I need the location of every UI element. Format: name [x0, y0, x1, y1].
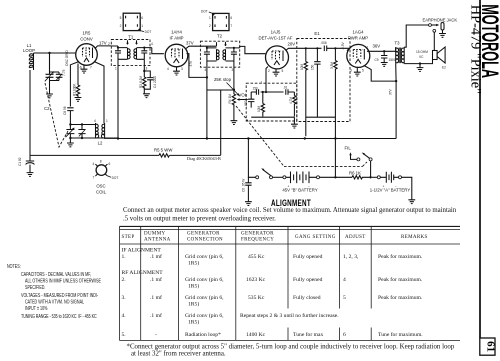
capacitor C9 1500 [375, 51, 396, 62]
svg-text:17V: 17V [99, 41, 107, 46]
svg-text:STEP: STEP [122, 235, 135, 240]
svg-text:OSC: OSC [96, 184, 105, 189]
svg-text:VC: VC [419, 55, 424, 59]
svg-text:Diag 40CK65043-B: Diag 40CK65043-B [187, 156, 221, 161]
svg-text:1, 2, 3,: 1, 2, 3, [343, 254, 359, 260]
svg-text:4: 4 [167, 67, 169, 71]
wire T3 secondary to earphone jack [404, 25, 429, 47]
svg-text:R4 1M: R4 1M [228, 94, 232, 104]
svg-text:6: 6 [343, 332, 346, 338]
svg-text:*Connect generator output acro: *Connect generator output across 5" diam… [127, 344, 455, 351]
battery return bus wire [30, 154, 221, 156]
pot wiper arrow [238, 99, 248, 101]
svg-text:61: 61 [484, 341, 496, 352]
svg-text:.1 mf: .1 mf [150, 294, 162, 301]
tube V4 1AG4 [347, 44, 370, 67]
svg-text:.006: .006 [321, 41, 327, 45]
main B- bus wire [70, 137, 396, 140]
svg-text:1R5): 1R5) [188, 260, 199, 267]
svg-text:Connect an output meter across: Connect an output meter across speaker v… [123, 207, 457, 214]
transformer T3 [396, 47, 405, 63]
svg-text:6: 6 [109, 162, 111, 166]
bus junction dots [247, 137, 249, 139]
volume control R4 1M pot [228, 90, 248, 106]
svg-text:.5 volts on output meter to pr: .5 volts on output meter to prevent over… [123, 216, 276, 223]
svg-text:GENERATOR: GENERATOR [187, 232, 220, 237]
ground below earphone jack [439, 34, 446, 38]
plate wire 1R5 to T1 with 17V [95, 46, 111, 49]
svg-text:1: 1 [106, 119, 108, 123]
svg-text:150: 150 [253, 87, 259, 91]
svg-text:Radiation loop*: Radiation loop* [185, 332, 221, 338]
svg-text:R1 100K: R1 100K [73, 83, 77, 96]
ground below C6 [245, 202, 252, 206]
wire junction down to bus [395, 81, 397, 138]
table footnote [127, 344, 455, 358]
svg-text:455 Kc: 455 Kc [248, 254, 265, 260]
capacitor C6 .05 [241, 177, 251, 201]
svg-text:E2: E2 [442, 66, 446, 70]
svg-text:1AJ5: 1AJ5 [271, 30, 281, 35]
table header text [122, 232, 428, 243]
svg-text:ADJUST: ADJUST [345, 235, 366, 240]
svg-text:5: 5 [120, 16, 122, 20]
wire T2 pin3 down to volume [233, 61, 235, 90]
on-off switch SW1 [256, 168, 273, 179]
svg-text:CONNECTION: CONNECTION [187, 238, 223, 243]
svg-text:4.7M: 4.7M [289, 97, 293, 104]
wire battery B to junction [320, 176, 353, 178]
wire T1 pin3 down to R2 C4 [143, 59, 145, 77]
wire battery A to ground [402, 177, 412, 200]
detector network dashed box [246, 83, 297, 121]
svg-text:37V: 37V [389, 88, 393, 95]
svg-text:C8 56: C8 56 [63, 106, 67, 115]
oscillator coil socket view [93, 160, 119, 195]
wire T1 pin1 down to bus [117, 59, 119, 138]
E1 bottom rail [306, 116, 336, 118]
coupling unit E1 dashed box [297, 39, 350, 122]
screen wire 1AH4 down [187, 54, 208, 78]
T2 secondary tuned circuit [223, 42, 266, 61]
svg-text:4: 4 [151, 42, 153, 46]
svg-text:Peak for maximum.: Peak for maximum. [378, 294, 423, 301]
svg-text:INPUT ± 10%: INPUT ± 10% [25, 305, 47, 311]
wire T2 pin4 down to bus [206, 61, 208, 139]
svg-text:1-1/2V "A" BATTERY: 1-1/2V "A" BATTERY [370, 188, 411, 193]
tuning gang section C2b osc [66, 125, 75, 139]
svg-text:CAPACITORS - DECIMAL VALUES IN: CAPACITORS - DECIMAL VALUES IN MF, [21, 271, 91, 277]
svg-text:10M: 10M [257, 105, 261, 112]
svg-text:Fully closed: Fully closed [293, 295, 321, 301]
svg-text:-: - [155, 332, 157, 338]
svg-text:-3.5V: -3.5V [341, 42, 345, 50]
svg-text:535 Kc: 535 Kc [248, 295, 265, 301]
svg-text:37V: 37V [189, 60, 193, 67]
svg-text:36V: 36V [373, 43, 381, 48]
resistor 3.3M in E1 [330, 47, 337, 176]
svg-text:8: 8 [100, 160, 102, 164]
ground below 1AG4 [356, 67, 358, 72]
resistor R1 100K [76, 85, 79, 97]
grid wire E1 to 1AG4 [347, 48, 350, 50]
svg-text:TUNING RANGE - 535 to 1620 KC: TUNING RANGE - 535 to 1620 KC IF - 455 K… [21, 313, 97, 319]
T2 primary tuned circuit [200, 42, 219, 61]
svg-text:FREQUENCY: FREQUENCY [241, 238, 274, 243]
socket diagram box T2 [201, 9, 232, 30]
svg-text:1: 1 [209, 16, 211, 20]
battery B1 45V [273, 172, 320, 193]
svg-text:1R5): 1R5) [188, 319, 199, 326]
svg-text:1: 1 [367, 46, 369, 50]
capacitor C4 2200 [144, 71, 153, 94]
svg-text:5.: 5. [122, 332, 127, 338]
svg-text:3: 3 [350, 69, 352, 73]
detector coupling cap 150 [251, 87, 266, 95]
speaker E2 [433, 47, 447, 70]
battery A 1.5V [370, 172, 411, 193]
capacitor C8 56 [63, 106, 73, 124]
plate wire 1AH4 to T2 with 37V [186, 46, 200, 48]
svg-text:5: 5 [343, 295, 346, 301]
ground on voice coil [419, 64, 421, 68]
svg-text:Grid conv (pin 6,: Grid conv (pin 6, [185, 253, 224, 260]
svg-text:7: 7 [93, 176, 95, 180]
wire C6 branch [248, 139, 255, 178]
capacitor .01 [265, 86, 295, 95]
svg-text:OSC GRID: OSC GRID [65, 50, 69, 66]
wire loop to converter grid [34, 52, 77, 54]
cathode wire down to L2 [94, 62, 104, 124]
svg-text:.1 mf: .1 mf [150, 253, 162, 260]
osc grid wire down to C8 [70, 62, 79, 107]
svg-text:Grid conv (pin 6,: Grid conv (pin 6, [185, 294, 224, 301]
svg-text:1: 1 [261, 81, 263, 85]
svg-text:Tune for max: Tune for max [293, 331, 323, 338]
wire T3 primary bottom to junction [395, 64, 397, 82]
svg-text:4.: 4. [122, 313, 127, 319]
antenna coil L1 [30, 53, 34, 155]
svg-text:4: 4 [205, 68, 207, 72]
transformer T2 dashed box [200, 41, 239, 67]
ground stub at osc cap [67, 143, 74, 147]
ground below tuning cap [49, 81, 51, 95]
svg-text:NOTES:: NOTES: [7, 263, 21, 269]
svg-text:15 OHM: 15 OHM [416, 50, 428, 54]
svg-text:6: 6 [141, 16, 143, 20]
svg-text:5: 5 [362, 69, 364, 73]
svg-text:6: 6 [230, 16, 232, 20]
svg-text:GANG SETTING: GANG SETTING [295, 235, 336, 240]
detector box bottom rail [251, 116, 294, 118]
ground below 1R5 [83, 65, 85, 69]
svg-text:4: 4 [93, 162, 95, 166]
svg-text:COIL: COIL [96, 190, 107, 195]
svg-text:REMARKS: REMARKS [401, 235, 428, 240]
grid return wire 1AJ5 to detector box [266, 67, 268, 93]
ground below 1AJ5 [275, 69, 277, 72]
screen wire down R1 [77, 64, 79, 86]
svg-text:GENERATOR: GENERATOR [241, 232, 274, 237]
svg-text:1.: 1. [122, 254, 127, 260]
ground below C9 [381, 63, 388, 67]
svg-text:4: 4 [94, 119, 96, 123]
svg-text:IF ALIGNMENT: IF ALIGNMENT [122, 247, 162, 253]
svg-text:2: 2 [108, 42, 110, 46]
tuning gang section C2a [45, 53, 59, 81]
node bottom rail to bus [70, 137, 95, 139]
svg-text:Fully opened: Fully opened [293, 254, 323, 260]
table body text [122, 247, 424, 338]
svg-text:HP-479 "Pixie": HP-479 "Pixie" [468, 5, 484, 94]
resistor R6 1K [352, 176, 370, 179]
svg-text:DOT: DOT [145, 30, 152, 34]
table top double rule [119, 225, 460, 227]
transformer T1 dashed box [111, 40, 150, 66]
svg-text:at least 32" from receiver ant: at least 32" from receiver antenna. [131, 351, 226, 358]
svg-text:1623 Kc: 1623 Kc [246, 277, 266, 283]
ground below detector box [293, 117, 295, 124]
alignment intro paragraph [123, 207, 457, 223]
ground below C1 [27, 173, 34, 177]
svg-text:LOOP: LOOP [23, 48, 35, 53]
wire L2 bottoms to bus [96, 137, 120, 140]
svg-text:R6 1K: R6 1K [349, 170, 361, 175]
ground below R2 C4 [143, 94, 150, 98]
svg-text:R5 5 WW: R5 5 WW [154, 148, 173, 153]
osc trimmer cap [78, 125, 85, 139]
T1 primary tuned circuit [111, 40, 130, 59]
svg-text:4: 4 [343, 277, 346, 283]
svg-text:1R5): 1R5) [188, 283, 199, 290]
antenna trimmer cap [56, 69, 66, 80]
svg-text:RF ALIGNMENT: RF ALIGNMENT [122, 270, 164, 276]
svg-text:1: 1 [141, 24, 143, 28]
svg-text:C9: C9 [375, 58, 379, 62]
svg-text:R2 8.2M: R2 8.2M [139, 76, 143, 88]
svg-text:5: 5 [282, 69, 284, 73]
svg-text:DOT: DOT [112, 176, 119, 180]
page number box [480, 338, 495, 355]
ground below volume pot [233, 105, 235, 121]
svg-text:DET-AVC-1ST AF: DET-AVC-1ST AF [259, 36, 293, 41]
tube V3 1AJ5 [266, 46, 289, 69]
resistor 10M [257, 91, 264, 117]
svg-text:DOT: DOT [201, 9, 208, 13]
svg-text:2: 2 [268, 69, 270, 73]
capacitor .006 [321, 41, 350, 51]
svg-text:C6 .05 W: C6 .05 W [241, 179, 245, 192]
svg-text:1AH4: 1AH4 [171, 30, 182, 35]
alignment heading [271, 198, 311, 209]
svg-text:PWR AMP: PWR AMP [348, 36, 368, 41]
capacitor .002 [244, 92, 255, 108]
svg-text:37V: 37V [186, 41, 194, 46]
ground below R1 [75, 98, 82, 102]
earphone jack [429, 23, 444, 34]
filament switch SW2 [345, 146, 373, 178]
svg-text:CATED WITH A VTVM. NO SIGNAL: CATED WITH A VTVM. NO SIGNAL [25, 299, 84, 305]
svg-text:3: 3 [181, 67, 183, 71]
model label HP-479 Pixie [468, 5, 484, 94]
svg-text:3.: 3. [122, 295, 127, 301]
svg-text:SPECIFIED.: SPECIFIED. [25, 284, 45, 290]
svg-text:.002: .002 [244, 100, 248, 106]
svg-text:1R5: 1R5 [83, 31, 91, 36]
svg-text:3.3M: 3.3M [330, 62, 334, 69]
svg-text:25K stop: 25K stop [214, 77, 232, 82]
svg-text:2: 2 [120, 24, 122, 28]
svg-text:T3: T3 [394, 41, 400, 46]
svg-text:1400 Kc: 1400 Kc [246, 332, 266, 338]
svg-text:ANTENNA: ANTENNA [144, 238, 171, 243]
svg-text:L2: L2 [98, 141, 103, 146]
svg-text:20V: 20V [288, 42, 296, 47]
svg-text:3: 3 [232, 68, 234, 72]
svg-text:C4 2200: C4 2200 [153, 76, 157, 88]
svg-text:ALL OTHERS IN MMF UNLESS OTHER: ALL OTHERS IN MMF UNLESS OTHERWISE [25, 278, 101, 284]
svg-text:C1 82: C1 82 [18, 157, 22, 166]
svg-text:1500: 1500 [389, 58, 396, 62]
filament wire 1AG4 pin5 [364, 66, 396, 82]
node junction at tuning cap [48, 52, 50, 54]
plate wire 1AG4 to T3 with 36V [367, 50, 393, 52]
svg-text:Repeat steps 2 & 3 until no fu: Repeat steps 2 & 3 until no further incr… [240, 312, 339, 319]
mechanical linkage dashed to switches [236, 106, 367, 166]
mechanical gang dashed linkage C2 [45, 83, 68, 147]
resistor 10M in E1 [300, 47, 307, 136]
svg-text:E1: E1 [314, 31, 320, 36]
svg-text:DUMMY: DUMMY [144, 232, 166, 237]
wire jack to voice coil [433, 32, 435, 50]
node osc rail [69, 123, 71, 125]
resistor R5 5 WW [159, 154, 169, 157]
wire down to tuning gang C2a [49, 53, 51, 72]
svg-text:T1: T1 [128, 34, 134, 39]
wire T3 primary top [393, 47, 395, 51]
T1 secondary tuned circuit [134, 40, 164, 59]
tube V1 1R5 [76, 44, 98, 66]
svg-text:7-75: 7-75 [62, 69, 66, 76]
title block divider line [479, 0, 481, 338]
svg-text:T2: T2 [217, 34, 223, 39]
table bottom rule [119, 339, 460, 341]
svg-text:7: 7 [230, 24, 232, 28]
tube V2 1AH4 [165, 44, 188, 67]
svg-text:Peak for maximum.: Peak for maximum. [378, 276, 423, 283]
svg-text:7: 7 [90, 66, 92, 70]
svg-text:.1 mf: .1 mf [150, 276, 162, 283]
svg-text:3: 3 [146, 67, 148, 71]
svg-text:VOLTAGES - MEASURED FROM POINT: VOLTAGES - MEASURED FROM POINT INDI- [21, 292, 99, 298]
ground below 1AH4 [176, 67, 178, 71]
svg-text:CONV: CONV [80, 37, 93, 42]
svg-text:2: 2 [209, 24, 211, 28]
svg-text:1: 1 [115, 67, 117, 71]
svg-text:IF AMP: IF AMP [169, 36, 183, 41]
table header underline [119, 243, 460, 245]
socket diagram box T1 [120, 13, 152, 34]
svg-text:.1 mf: .1 mf [150, 312, 162, 319]
table column rules [119, 226, 121, 340]
svg-text:2.: 2. [122, 277, 127, 283]
resistor R2 8.2M [143, 77, 146, 89]
wire T3 secondary bottom [404, 60, 432, 64]
svg-text:Grid conv (pin 6,: Grid conv (pin 6, [185, 312, 224, 319]
svg-text:45V "B" BATTERY: 45V "B" BATTERY [282, 188, 318, 193]
MOTOROLA logo text [476, 4, 500, 78]
svg-text:.01: .01 [283, 86, 288, 90]
capacitor C1 [18, 155, 34, 172]
svg-text:1AG4: 1AG4 [353, 30, 365, 35]
svg-text:EARPHONE JACK: EARPHONE JACK [423, 18, 458, 23]
oscillator coil L2 [94, 119, 108, 146]
svg-text:1R5): 1R5) [188, 301, 199, 308]
svg-text:FIL: FIL [345, 146, 352, 151]
svg-text:Grid conv (pin 6,: Grid conv (pin 6, [185, 276, 224, 283]
svg-text:Tune for maximum.: Tune for maximum. [378, 331, 423, 338]
wire pot top rail [207, 90, 234, 155]
svg-text:10M: 10M [300, 63, 304, 70]
svg-text:Fully opened: Fully opened [293, 277, 323, 283]
svg-text:150: 150 [311, 64, 315, 70]
capacitor 150 in E1 [311, 47, 321, 117]
svg-text:C2: C2 [44, 106, 50, 111]
plate wire 1AJ5 into E1 with 20V [286, 48, 322, 50]
svg-text:Peak for maximum.: Peak for maximum. [378, 253, 423, 260]
resistor 4.7M [289, 92, 296, 116]
